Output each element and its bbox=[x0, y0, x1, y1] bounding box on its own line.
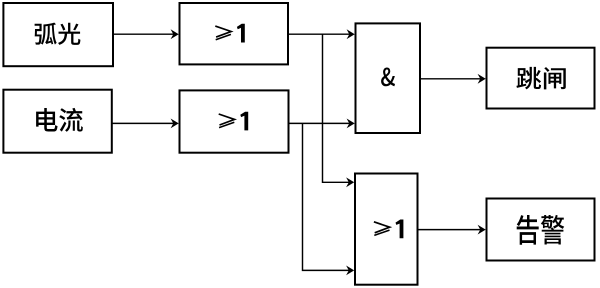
arrowhead into OR3 lower input bbox=[346, 266, 354, 276]
output block 告警 (alarm) bbox=[487, 199, 595, 261]
wire AND to 跳闸 bbox=[420, 78, 481, 80]
OR gate OR1 (>=1) bbox=[180, 3, 289, 64]
arrowhead into 跳闸 bbox=[478, 74, 486, 84]
wire OR1 to AND (upper input) bbox=[288, 33, 350, 35]
wire OR3 to 告警 bbox=[418, 229, 481, 231]
arrowhead into OR3 upper input bbox=[346, 177, 354, 187]
label 告警 bbox=[517, 215, 564, 245]
label 电流 bbox=[36, 108, 83, 132]
wire 电流 to OR2 bbox=[112, 122, 174, 124]
AND gate (&) bbox=[356, 23, 421, 133]
arrowhead into OR1 bbox=[171, 29, 179, 39]
arrowhead into OR2 bbox=[171, 119, 179, 129]
branch wire from node at (322.5,34.2) down to OR3 upper input bbox=[323, 34, 350, 182]
OR gate OR2 (>=1) bbox=[180, 90, 289, 152]
label 跳闸 bbox=[516, 67, 565, 90]
arrowhead into AND lower input bbox=[347, 119, 355, 129]
arrowhead into 告警 bbox=[478, 225, 486, 235]
wire OR2 to AND (lower input) bbox=[289, 122, 351, 124]
label 弧光 bbox=[35, 23, 81, 45]
OR gate OR3 (>=1) bbox=[355, 174, 418, 285]
label >=1 of OR1 bbox=[215, 24, 245, 43]
wire 弧光 to OR1 bbox=[113, 33, 174, 35]
label >=1 of OR3 bbox=[374, 220, 404, 239]
output block 跳闸 (trip) bbox=[487, 48, 595, 109]
arrowhead into AND upper input bbox=[347, 29, 355, 39]
label >=1 of OR2 bbox=[219, 112, 249, 131]
input block 电流 (current) bbox=[3, 90, 111, 153]
branch wire from node at (302.5,123.4) down to OR3 lower input bbox=[303, 123, 350, 270]
label & bbox=[381, 68, 395, 87]
input block 弧光 (arc-light) bbox=[3, 3, 113, 66]
